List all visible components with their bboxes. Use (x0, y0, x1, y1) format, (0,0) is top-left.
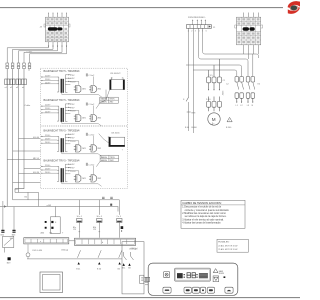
left vertical wires (7, 69, 24, 207)
svg-text:2.Modificar las conexiones: 2.Modificar las conexiones del motor com… (182, 212, 226, 215)
bus line 3 (gray) (0, 207, 118, 212)
top border line (0, 7, 283, 9)
transformer row 3 (41, 128, 102, 156)
svg-text:corriente y conectar el puente: corriente y conectar el puente suministr… (185, 209, 230, 212)
grid2 wires (244, 13, 259, 18)
terminal strip left (24, 238, 69, 244)
black terminal mark (8, 257, 11, 260)
transformer row 1 (41, 69, 102, 97)
J3 wires top (49, 13, 67, 17)
svg-text:= B1: = B1 (47, 205, 52, 207)
svg-text:3.Ajustar el rele termico: 3.Ajustar el rele termico al valor nomin… (182, 218, 224, 221)
lamp symbol (26, 253, 30, 257)
arrows under lower bus (78, 262, 121, 264)
svg-text:1.Desconectar el enchufe de: 1.Desconectar el enchufe de la red de (182, 206, 222, 209)
strip J1 top pins (193, 20, 206, 25)
bottom row buttons (163, 287, 171, 293)
diagonal wire table1 (96, 103, 100, 108)
branch wire labels (33, 137, 40, 174)
capacitor marks left edge (1, 230, 15, 233)
transformer row 4 (41, 158, 102, 186)
svg-text:400 94: 400 94 (33, 172, 40, 174)
panel cable left (145, 282, 148, 285)
C2 terminal labels (236, 105, 254, 107)
svg-text:MAGN: MAGN (101, 159, 108, 162)
wires to capacitor terminals (3, 207, 14, 231)
drop fuse labels (77, 216, 122, 218)
door switch on wire (186, 97, 189, 101)
svg-text:CN4 (g): CN4 (g) (129, 248, 136, 250)
instructions box (181, 200, 245, 228)
bus line 1 (3, 189, 39, 207)
connector box CN4001/2 (110, 73, 125, 90)
svg-text:MAGN: MAGN (101, 101, 108, 104)
left connector plugs (6, 63, 31, 69)
diagonal wire table2 (96, 161, 100, 166)
left bus branch wires into dashed boxes (7, 139, 40, 183)
svg-text:CN 4001: CN 4001 (111, 133, 120, 135)
bus tap marks (102, 197, 113, 198)
relay box bottom left (3, 236, 14, 252)
door picture (40, 272, 63, 293)
svg-text:MAGN: MAGN (101, 98, 108, 101)
svg-text:400 04: 400 04 (33, 137, 40, 139)
fuse labels (5, 87, 26, 89)
contactor C1 (207, 59, 222, 90)
svg-text:FUSIBLES:: FUSIBLES: (218, 242, 230, 244)
plug marks (187, 111, 196, 114)
svg-text:4.Ajustar las tomas del tr: 4.Ajustar las tomas del transformador. (182, 222, 221, 225)
svg-text:230V: 230V (221, 91, 223, 96)
terminal strip right (75, 238, 136, 245)
drops from bus2 with fuses (79, 200, 119, 238)
relay table 1 (100, 97, 119, 104)
J1 down wires + routing (186, 28, 259, 133)
component box with pins (45, 207, 61, 234)
strip joining stub (69, 240, 75, 242)
bottom border line (0, 297, 300, 299)
display (175, 268, 211, 281)
hatched cable to panel (145, 277, 151, 281)
svg-text:M: M (212, 117, 216, 122)
wire row3 to CN4001 (99, 134, 109, 143)
node B5c (black) (121, 226, 124, 229)
transformer row 2 (41, 98, 102, 126)
round button (164, 272, 170, 278)
contactor C1 lower row (207, 97, 222, 112)
J3 wire arrowheads (48, 46, 67, 48)
component labels (41, 231, 65, 234)
terminal block J3 (top left grid) (40, 17, 71, 42)
logo (red S, top right) (288, 1, 300, 14)
motor M (208, 113, 220, 126)
svg-text:CN 4001/2: CN 4001/2 (110, 73, 121, 75)
contactor C2 bottom arrows (236, 102, 253, 104)
fuses table box (217, 239, 248, 252)
svg-text:MD 94: MD 94 (33, 158, 40, 160)
svg-text:Cable: Cable (25, 105, 31, 107)
svg-text:10 e 1: 10 e 1 (77, 216, 83, 218)
svg-text:TRV5: TRV5 (109, 99, 115, 101)
motor circuit labels (185, 127, 198, 129)
terminal strip J1 (186, 25, 216, 33)
svg-text:800W: 800W (219, 273, 224, 275)
svg-text:Cable: Cable (27, 51, 33, 53)
svg-text:CN4 (g): CN4 (g) (61, 249, 68, 251)
junction mark (110, 204, 112, 206)
wire routing grid1 to left bus (7, 48, 66, 63)
J3 wires bottom (49, 42, 67, 54)
warning triangle (227, 117, 232, 121)
drop sub labels (73, 227, 97, 231)
grid2 terminal block (top right) (235, 17, 263, 45)
svg-text:FUD 0.034: FUD 0.034 (33, 250, 44, 252)
strip bottom labels (33, 248, 138, 252)
fuse row (5, 79, 27, 85)
dashed box A (rows 1-2) (40, 68, 127, 126)
svg-text:B 400: B 400 (192, 127, 198, 129)
lower bus labels (76, 268, 121, 270)
interlock box (122, 242, 144, 294)
black contact bar (48, 27, 58, 30)
svg-text:220V/230V/240V~: 220V/230V/240V~ (188, 17, 207, 19)
svg-text:se indica en la tapa de la caj: se indica en la tapa de la caja de borne… (185, 215, 227, 218)
svg-text:TRV5: TRV5 (110, 157, 116, 159)
connector box CN4001 (lower) (108, 133, 125, 152)
lower bus line (27, 258, 122, 260)
relay table 2 (100, 155, 119, 162)
capacitor labels B02 B03 (1, 234, 17, 236)
svg-text:B 500: B 500 (226, 127, 232, 129)
diagonal drops to lower bus (77, 250, 122, 258)
svg-text:25 A5L MOTOR 5 kW: 25 A5L MOTOR 5 kW (218, 248, 237, 251)
svg-text:30 e 5: 30 e 5 (97, 216, 103, 218)
dashed box B (rows 3-4) (40, 126, 127, 189)
svg-text:CAMBIO DE TENSION 220V/230V:: CAMBIO DE TENSION 220V/230V: (182, 202, 222, 205)
contactor C2 (4 pole) (235, 77, 255, 103)
bus line 2 (13, 199, 120, 201)
svg-text:MAGN: MAGN (101, 156, 108, 159)
wire row2 to CN box (99, 90, 110, 104)
svg-text:20 A5L MOTOR 3 kW: 20 A5L MOTOR 3 kW (218, 244, 237, 247)
right icons (213, 269, 218, 273)
